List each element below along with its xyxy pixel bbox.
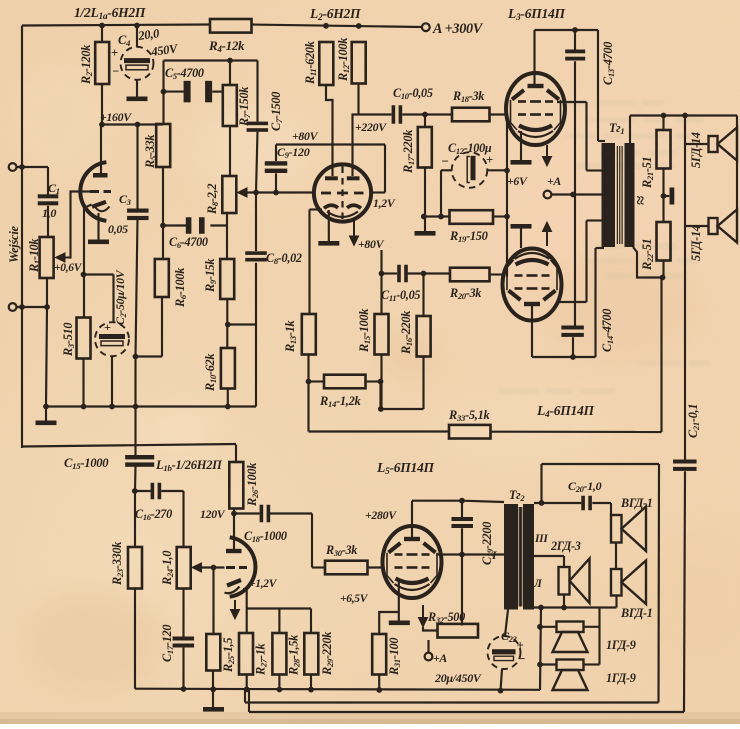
svg-text:5ГД-14: 5ГД-14	[689, 225, 703, 261]
svg-text:−: −	[518, 651, 526, 666]
svg-text:R17-220k: R17-220k	[401, 129, 416, 174]
svg-text:R25-1,5: R25-1,5	[221, 638, 236, 673]
svg-text:R19-150: R19-150	[449, 229, 488, 244]
svg-text:R3-510: R3-510	[61, 323, 76, 357]
svg-text:ВГД-1: ВГД-1	[620, 496, 653, 510]
svg-text:C9-120: C9-120	[277, 145, 310, 160]
svg-text:+80V: +80V	[292, 129, 319, 143]
svg-text:+: +	[111, 46, 118, 60]
svg-text:L3-6П14П: L3-6П14П	[507, 6, 565, 23]
svg-text:L2-6Н2П: L2-6Н2П	[309, 6, 361, 23]
svg-text:R29-220k: R29-220k	[320, 631, 335, 676]
svg-text:R16-220k: R16-220k	[399, 310, 414, 355]
svg-text:2ГД-3: 2ГД-3	[550, 539, 581, 553]
svg-text:C8-0,02: C8-0,02	[266, 251, 302, 266]
svg-text:R23-330k: R23-330k	[110, 541, 125, 586]
svg-text:20μ/450V: 20μ/450V	[434, 671, 482, 685]
svg-text:R24-1,0: R24-1,0	[160, 551, 175, 586]
svg-text:R2-120k: R2-120k	[79, 44, 94, 85]
svg-text:+220V: +220V	[355, 120, 387, 134]
svg-text:120V: 120V	[200, 507, 226, 521]
svg-text:C17-120: C17-120	[160, 625, 175, 662]
svg-text:1/2L1a-6Н2П: 1/2L1a-6Н2П	[74, 5, 146, 22]
svg-text:R5-33k: R5-33k	[143, 134, 158, 169]
svg-text:+80V: +80V	[358, 237, 385, 251]
svg-text:C6-4700: C6-4700	[169, 235, 208, 250]
svg-text:R18-3k: R18-3k	[452, 89, 484, 104]
svg-text:0,05: 0,05	[108, 222, 128, 236]
svg-text:R22-51: R22-51	[640, 239, 655, 271]
svg-text:+160V: +160V	[100, 110, 132, 124]
svg-text:C19-2200: C19-2200	[480, 522, 495, 565]
svg-text:1ГД-9: 1ГД-9	[606, 638, 636, 652]
svg-text:+1,2V: +1,2V	[249, 578, 278, 590]
svg-text:R21-51: R21-51	[640, 157, 655, 189]
svg-text:1,2V: 1,2V	[373, 196, 396, 210]
svg-text:+6,5V: +6,5V	[340, 593, 369, 605]
svg-text:C14-4700: C14-4700	[600, 309, 615, 352]
svg-text:R11-620k: R11-620k	[303, 40, 318, 85]
svg-text:R1-10k: R1-10k	[27, 238, 42, 273]
svg-text:R27-1k: R27-1k	[254, 642, 269, 676]
svg-text:R8-2,2: R8-2,2	[205, 184, 220, 215]
svg-text:C5-4700: C5-4700	[165, 66, 204, 81]
svg-text:ВГД-1: ВГД-1	[620, 606, 653, 620]
svg-text:R13-1k: R13-1k	[283, 319, 298, 353]
svg-text:R32-500: R32-500	[427, 610, 465, 625]
svg-text:C10-0,05: C10-0,05	[393, 86, 433, 101]
svg-text:R12-100k: R12-100k	[336, 37, 351, 82]
svg-text:+A: +A	[433, 651, 447, 665]
svg-text:C21-0,1: C21-0,1	[686, 404, 701, 438]
svg-text:R15-100k: R15-100k	[357, 308, 372, 353]
svg-text:R9-15k: R9-15k	[203, 258, 218, 293]
svg-text:L5-6П14П: L5-6П14П	[376, 460, 434, 477]
svg-text:C11-0,05: C11-0,05	[381, 288, 420, 303]
svg-text:C15-1000: C15-1000	[64, 456, 109, 471]
svg-text:C18-1000: C18-1000	[244, 529, 287, 544]
svg-text:R20-3k: R20-3k	[449, 286, 481, 301]
svg-text:+: +	[104, 320, 111, 334]
svg-text:R31-100: R31-100	[387, 638, 402, 676]
svg-text:1,0: 1,0	[42, 206, 56, 220]
svg-text:1ГД-9: 1ГД-9	[606, 671, 636, 685]
svg-text:C20-1,0: C20-1,0	[568, 479, 602, 494]
svg-text:C13-4700: C13-4700	[601, 42, 616, 85]
svg-text:R28-1,5k: R28-1,5k	[287, 634, 302, 676]
svg-text:A +300V: A +300V	[432, 21, 484, 37]
svg-text:C7-1500: C7-1500	[269, 92, 284, 131]
svg-text:III: III	[534, 533, 548, 545]
svg-text:R14-1,2k: R14-1,2k	[319, 394, 361, 409]
svg-text:R7-150k: R7-150k	[237, 86, 252, 127]
svg-text:R6-100k: R6-100k	[173, 267, 188, 308]
svg-text:R30-3k: R30-3k	[325, 543, 357, 558]
svg-text:R10-62k: R10-62k	[203, 353, 218, 392]
svg-text:−: −	[441, 154, 449, 169]
svg-text:−: −	[112, 64, 119, 78]
svg-text:R26-100k: R26-100k	[245, 462, 260, 507]
svg-text:+: +	[486, 153, 493, 167]
svg-text:Wejście: Wejście	[7, 225, 21, 263]
svg-text:C12-100μ: C12-100μ	[448, 141, 492, 156]
svg-text:R4-12k: R4-12k	[208, 38, 245, 54]
svg-text:C16-270: C16-270	[135, 507, 172, 522]
svg-text:+6V: +6V	[507, 174, 528, 188]
svg-text:L4-6П14П: L4-6П14П	[536, 403, 594, 420]
svg-text:5ГД-14: 5ГД-14	[689, 132, 703, 168]
svg-text:+A: +A	[547, 174, 561, 188]
svg-text:≈: ≈	[631, 196, 650, 205]
svg-text:Л: Л	[533, 578, 543, 590]
svg-text:+280V: +280V	[365, 508, 397, 522]
svg-text:+0,6V: +0,6V	[54, 262, 83, 274]
svg-text:R33-5,1k: R33-5,1k	[448, 408, 490, 423]
